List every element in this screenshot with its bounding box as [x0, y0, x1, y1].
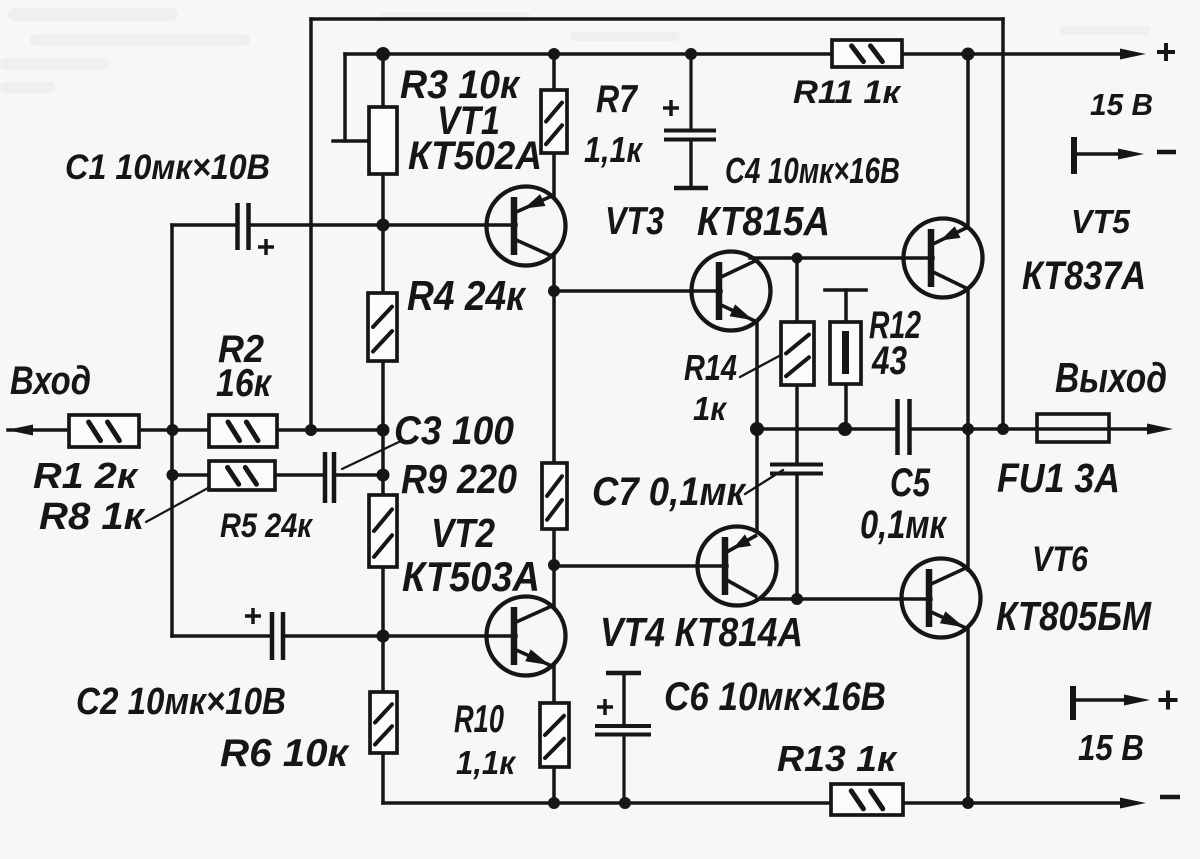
node C4 top: [685, 48, 697, 60]
transistor VT2: [487, 597, 566, 676]
minus sign bottom right: [1160, 795, 1180, 800]
node VT5 emitter rail: [962, 48, 975, 61]
node input R1-R2: [167, 424, 179, 436]
transistor VT6: [902, 559, 981, 638]
fuse FU1: [1037, 414, 1109, 442]
wire bottom supply rail: [383, 801, 1124, 805]
plus terminal bottom: [1070, 686, 1076, 720]
node C7 bottom: [791, 593, 803, 605]
svg-text:КТ815А: КТ815А: [697, 198, 830, 244]
node R14 top: [792, 253, 803, 264]
node R12 bottom: [838, 422, 852, 436]
svg-text:R11 1к: R11 1к: [793, 74, 902, 110]
node C2 base: [377, 630, 390, 643]
wire C3 to node: [334, 473, 383, 477]
svg-text:1к: 1к: [693, 390, 728, 427]
wire VT2 collector lead: [552, 565, 556, 606]
svg-text:R10: R10: [454, 698, 504, 741]
resistor R1: [69, 415, 139, 447]
svg-text:Выход: Выход: [1055, 354, 1167, 401]
svg-text:КТ837А: КТ837А: [1022, 254, 1146, 298]
resistor R3: [369, 107, 397, 174]
capacitor C7: [770, 463, 823, 467]
wire VT6 base row: [757, 597, 931, 601]
node R7 top: [548, 48, 560, 60]
resistor R13: [831, 784, 903, 815]
wire R9 bottom lead: [381, 567, 385, 636]
node C5 right: [962, 423, 974, 435]
wire output row right: [912, 427, 1148, 431]
wire VT2 emitter to R10: [552, 666, 556, 703]
wire R6 top lead: [381, 636, 385, 692]
node C1 base: [377, 219, 390, 232]
resistor R6: [370, 692, 397, 753]
wire left feedback vertical: [309, 19, 313, 430]
svg-text:С4 10мк×16В: С4 10мк×16В: [725, 150, 900, 191]
pointer C3 label: [342, 441, 401, 469]
minus terminal top: [1071, 137, 1077, 174]
wire left input column: [170, 225, 174, 636]
wire R7 top lead: [552, 54, 556, 90]
wire R3 top lead: [381, 54, 385, 107]
svg-text:R1 2к: R1 2к: [33, 455, 139, 496]
plus sign bottom right: [1159, 698, 1178, 702]
wire VT4 base row: [554, 564, 727, 568]
wire right feedback vertical: [1001, 19, 1005, 429]
wire VT5 emitter column: [966, 54, 970, 228]
svg-text:15 В: 15 В: [1090, 87, 1153, 122]
node C3 right: [377, 469, 390, 482]
minus sign top right: [1157, 150, 1176, 155]
wire C2 row right to VT2 base: [283, 634, 516, 638]
wire R10 bottom lead: [552, 767, 556, 803]
capacitor C5: [895, 399, 900, 455]
resistor R5: [209, 461, 275, 490]
wire R4 top lead: [381, 226, 385, 293]
wire top supply rail: [345, 52, 1122, 56]
scan noise: [0, 8, 1150, 93]
wire R1 to node: [138, 428, 210, 432]
svg-text:С7 0,1мк: С7 0,1мк: [592, 470, 747, 514]
wire VT3 emitter column: [755, 321, 759, 529]
wire VT1 collector lead: [552, 255, 556, 291]
node feedback input: [305, 424, 317, 436]
svg-text:КТ503А: КТ503А: [402, 553, 540, 600]
wire R4 bottom lead: [381, 361, 385, 430]
svg-text:FU1 3А: FU1 3А: [997, 455, 1120, 501]
svg-text:16к: 16к: [216, 362, 273, 405]
svg-text:VT4 КТ814А: VT4 КТ814А: [600, 609, 803, 655]
capacitor C4: [689, 54, 692, 130]
wire R14 top lead: [795, 258, 799, 322]
pointer R14 label: [740, 355, 781, 377]
svg-text:Вход: Вход: [10, 359, 91, 403]
pointer R8 label: [146, 488, 208, 522]
wire R5 row left: [172, 473, 210, 477]
transistor VT1: [487, 187, 566, 266]
wire top feedback line: [311, 17, 1003, 21]
svg-text:КТ502А: КТ502А: [408, 134, 542, 178]
node VT1 collector: [548, 285, 560, 297]
svg-text:R5 24к: R5 24к: [220, 507, 313, 545]
wire C1 row left: [172, 223, 236, 227]
transistor VT5: [904, 219, 983, 298]
node R4 bottom: [377, 424, 390, 437]
wire R9 top lead: [381, 430, 385, 495]
svg-text:R6 10к: R6 10к: [220, 732, 350, 775]
node R5 left: [167, 469, 179, 481]
svg-text:1,1к: 1,1к: [584, 129, 643, 170]
svg-text:R13 1к: R13 1к: [777, 738, 898, 779]
node R3 top: [376, 47, 390, 61]
node VT6 emitter rail: [962, 797, 974, 809]
wire VT6 emitter column: [966, 628, 970, 803]
resistor R9b: [542, 463, 567, 529]
svg-text:VT5: VT5: [1071, 203, 1131, 240]
node feedback out: [997, 423, 1009, 435]
resistor R10: [540, 703, 569, 767]
wire VT3 base row: [554, 289, 721, 293]
resistor R2: [209, 415, 277, 447]
wire R14 bottom to C7: [795, 385, 799, 462]
wire R12 top bar: [825, 288, 866, 292]
wire input stub: [8, 428, 70, 432]
svg-text:1,1к: 1,1к: [456, 744, 517, 781]
svg-text:С6 10мк×16В: С6 10мк×16В: [664, 675, 886, 719]
wire R9b top lead: [552, 291, 556, 463]
svg-text:VT6: VT6: [1032, 540, 1088, 579]
svg-text:VT2: VT2: [431, 510, 495, 556]
wire output row left: [757, 427, 894, 431]
svg-text:0,1мк: 0,1мк: [860, 503, 947, 547]
node R10 bottom: [548, 797, 560, 809]
wire C7 bottom lead: [795, 476, 799, 599]
resistor R11: [832, 40, 902, 67]
wire R9b bottom lead: [552, 529, 556, 565]
output terminal arrow: [1147, 424, 1173, 435]
node VT2 collector: [548, 559, 560, 571]
plus sign top right: [1157, 50, 1175, 54]
resistor R12: [830, 322, 861, 384]
wire R7 to VT1 emitter: [552, 153, 556, 196]
capacitor C2: [270, 612, 275, 660]
resistor R7: [541, 90, 567, 153]
svg-text:С3 100: С3 100: [394, 409, 514, 453]
wire R12 bottom lead: [844, 384, 848, 429]
svg-text:VT3: VT3: [605, 200, 664, 243]
capacitor C6: [606, 671, 641, 676]
wire C2 row left: [172, 634, 271, 638]
minus supply arrow bottom: [1120, 798, 1146, 809]
svg-text:15 В: 15 В: [1078, 727, 1144, 768]
wire R2 to feedback node: [276, 428, 383, 432]
svg-text:С2 10мк×10В: С2 10мк×10В: [76, 681, 286, 723]
wire R5 row middle: [273, 473, 324, 477]
plus supply arrow top: [1120, 49, 1146, 60]
svg-text:R4 24к: R4 24к: [407, 272, 527, 319]
svg-text:С5: С5: [890, 461, 931, 505]
wire VT3 collector row: [750, 256, 933, 260]
transistor VT4: [698, 527, 777, 606]
wire R6 bottom lead: [381, 753, 385, 803]
input terminal arrow: [7, 425, 33, 436]
svg-text:С1 10мк×10В: С1 10мк×10В: [65, 148, 270, 187]
transistor VT3: [692, 252, 771, 331]
svg-text:R9 220: R9 220: [401, 456, 517, 502]
capacitor C3: [323, 452, 328, 503]
node VT3 emitter out: [750, 422, 764, 436]
node C6 bottom: [619, 797, 631, 809]
svg-text:КТ805БМ: КТ805БМ: [996, 593, 1152, 639]
wire R3 side bracket: [343, 54, 347, 141]
svg-text:R14: R14: [684, 347, 737, 388]
wire C1 row right to VT1 base: [249, 223, 516, 227]
pointer C7 label: [745, 470, 783, 494]
svg-text:R8 1к: R8 1к: [39, 496, 146, 538]
wire R3 bottom lead: [381, 174, 385, 226]
resistor R14: [781, 322, 814, 385]
resistor R9: [369, 495, 397, 567]
wire VT5-VT6 collector column: [966, 289, 970, 570]
svg-text:43: 43: [871, 339, 907, 383]
svg-text:R7: R7: [596, 78, 639, 121]
capacitor C1: [235, 203, 240, 250]
resistor R4: [368, 293, 397, 361]
